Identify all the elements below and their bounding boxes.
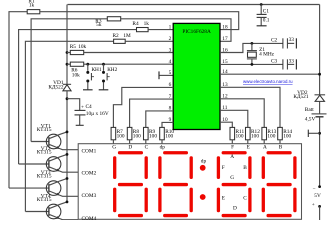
diode VD1 КД522 — [63, 83, 71, 86]
pushbutton КН1 — [86, 63, 89, 66]
wire R3 to pin 17 — [121, 19, 231, 41]
wire pin 15 to C3 — [220, 63, 283, 66]
terminal minus — [318, 185, 321, 188]
svg-text:G: G — [112, 144, 116, 150]
resistor R11 100 — [230, 127, 235, 139]
svg-text:5: 5 — [169, 70, 172, 76]
svg-text:КТ315: КТ315 — [37, 174, 52, 180]
resistor R2 1M — [114, 39, 126, 43]
svg-text:COM2: COM2 — [82, 171, 97, 177]
wire C4 bottom — [78, 115, 81, 125]
wire collector VT1 — [49, 132, 67, 139]
wire left bias rail — [65, 5, 68, 85]
capacitor C3 33 — [281, 59, 284, 69]
wire R6 to pin 4 — [84, 62, 173, 65]
ground pin 5 — [159, 74, 173, 77]
display digit 4 — [267, 151, 292, 154]
svg-text:E: E — [247, 144, 250, 150]
svg-text:R2: R2 — [113, 33, 120, 39]
svg-text:C2: C2 — [271, 37, 278, 43]
display module — [78, 144, 301, 220]
svg-text:5k: 5k — [96, 22, 102, 28]
battery Batt 4,5V — [312, 112, 327, 115]
svg-text:4 MHz: 4 MHz — [259, 52, 275, 58]
svg-text:G: G — [230, 175, 234, 181]
wire collector VT2 — [49, 154, 67, 161]
capacitor C4 10u 16V — [75, 109, 86, 112]
wire right rail upper — [318, 5, 321, 95]
display digit 3 — [222, 151, 247, 154]
wire R7 to display G — [112, 140, 115, 144]
svg-text:dp: dp — [201, 159, 207, 165]
wire R4 to pin 1 — [148, 28, 173, 31]
wire base VT1 — [31, 140, 49, 143]
wire emitter VT4 to COM4 — [49, 214, 78, 219]
wire R13 to display A — [262, 140, 265, 144]
resistor R6 10k — [70, 62, 83, 66]
svg-text:1M: 1M — [123, 33, 131, 39]
wire +rail top — [68, 3, 320, 6]
crystal Z1 4 MHz — [251, 42, 254, 45]
wire R1 net — [9, 12, 27, 188]
wire R11 to display F — [231, 140, 234, 144]
svg-text:COM1: COM1 — [82, 148, 97, 154]
svg-text:10k: 10k — [72, 72, 80, 78]
wire base VT3 — [9, 186, 49, 189]
wire base VT2 — [19, 162, 49, 165]
svg-text:4,5V: 4,5V — [305, 117, 316, 123]
svg-text:−: − — [312, 186, 315, 192]
svg-text:R4: R4 — [132, 21, 139, 27]
svg-text:100: 100 — [251, 134, 259, 140]
pushbutton КН2 — [102, 63, 105, 66]
svg-text:1k: 1k — [144, 21, 150, 27]
svg-text:КТ315: КТ315 — [37, 197, 52, 203]
svg-text:C1: C1 — [263, 9, 270, 15]
transistor VT2 КТ315 — [46, 157, 61, 172]
svg-text:D: D — [128, 144, 132, 150]
svg-text:КД521: КД521 — [293, 94, 309, 100]
wire pin 9 to R10 — [162, 122, 173, 127]
wire R10 to display dp — [160, 140, 163, 144]
svg-text:COM3: COM3 — [82, 193, 97, 199]
wire emitter VT1 to COM1 — [49, 144, 78, 149]
resistor R3 5k — [107, 17, 120, 21]
wire pin 13 to R14 — [220, 87, 280, 127]
svg-text:5V: 5V — [314, 193, 321, 199]
wire pin 14 VDD to rail — [220, 72, 320, 75]
svg-text:www.electroavto.narod.ru: www.electroavto.narod.ru — [243, 79, 293, 84]
ground КН1 — [86, 82, 89, 89]
wire from plus terminal — [318, 206, 321, 220]
svg-text:B: B — [279, 144, 283, 150]
wire pin 12 to R13 — [220, 99, 264, 128]
svg-text:E: E — [222, 195, 225, 201]
svg-text:100: 100 — [267, 134, 275, 140]
wire collector VT4 — [49, 202, 67, 209]
svg-text:100: 100 — [149, 134, 157, 140]
resistor R5 10k — [70, 50, 83, 54]
wire emitter VT3 to COM3 — [49, 191, 78, 196]
svg-text:R5: R5 — [70, 44, 77, 50]
wire right rail below battery — [318, 117, 321, 187]
wire base VT4 — [25, 210, 48, 213]
capacitor C1 0.1 — [260, 3, 263, 6]
svg-text:100: 100 — [236, 134, 244, 140]
svg-text:18: 18 — [222, 24, 228, 30]
wire pin 8 to R9 — [146, 111, 173, 128]
resistor R9 100 — [144, 127, 149, 139]
node R5 tap — [66, 51, 69, 54]
node C4 tap — [66, 97, 69, 100]
wire collector VT3 — [49, 179, 67, 186]
display colon dots — [200, 165, 206, 171]
wire R8 to display D — [128, 140, 131, 144]
resistor R12 100 — [246, 127, 251, 139]
svg-text:PIC16F628A: PIC16F628A — [182, 29, 211, 35]
svg-text:+: + — [312, 202, 315, 208]
svg-text:0.1: 0.1 — [263, 17, 270, 23]
capacitor C2 33 — [281, 38, 284, 48]
svg-text:КД522: КД522 — [48, 84, 64, 90]
wire R9 to display C — [144, 140, 147, 144]
wire R12 to display E — [246, 140, 249, 144]
resistor R4 1k — [137, 28, 149, 32]
IC U1 PIC16F628A — [173, 23, 220, 129]
wire emitter VT2 to COM2 — [49, 167, 78, 172]
diode VD2 — [315, 93, 326, 96]
svg-text:F: F — [231, 144, 234, 150]
wire R2 to pin 2 — [125, 40, 173, 43]
svg-text:B: B — [243, 165, 247, 171]
transistor VT4 КТ315 — [46, 204, 61, 219]
svg-text:A: A — [230, 154, 234, 160]
wire R4 net — [19, 30, 137, 164]
svg-text:+: + — [81, 105, 84, 111]
svg-text:100: 100 — [165, 134, 173, 140]
wire pin 7 to R8 — [130, 99, 174, 127]
wire pin 6 to R7 — [113, 87, 173, 127]
transistor VT3 КТ315 — [46, 181, 61, 196]
svg-text:F: F — [222, 165, 225, 171]
wire R5 to pin 3 — [84, 51, 173, 54]
svg-text:КТ315: КТ315 — [37, 149, 52, 155]
svg-text:Batt: Batt — [305, 107, 314, 113]
wire pin 11 to R12 — [220, 110, 248, 127]
svg-text:33: 33 — [289, 58, 295, 64]
node R6 tap — [66, 63, 69, 66]
resistor R14 100 — [278, 127, 283, 139]
wire pin 10 to R11 — [220, 122, 232, 127]
svg-text:17: 17 — [222, 36, 228, 42]
svg-text:100: 100 — [133, 134, 141, 140]
svg-text:C: C — [243, 195, 247, 201]
resistor R13 100 — [262, 127, 267, 139]
wire right rail mid — [318, 101, 321, 113]
svg-text:1: 1 — [169, 24, 172, 30]
wire R3 net — [31, 19, 107, 142]
svg-text:100: 100 — [117, 134, 125, 140]
svg-text:КН2: КН2 — [107, 67, 117, 73]
svg-text:C3: C3 — [271, 59, 278, 65]
svg-text:3: 3 — [169, 47, 172, 53]
svg-text:33: 33 — [289, 37, 295, 43]
svg-text:1k: 1k — [29, 3, 35, 9]
svg-text:10k: 10k — [78, 44, 86, 50]
svg-text:КТ315: КТ315 — [37, 127, 52, 133]
transistor VT1 КТ315 — [46, 134, 61, 149]
display digit 1 — [118, 151, 143, 154]
wire R14 to display B — [278, 140, 281, 144]
resistor R10 100 — [160, 127, 165, 139]
svg-text:100: 100 — [283, 134, 291, 140]
svg-text:КН1: КН1 — [92, 67, 102, 73]
node stub with terminal bar — [318, 132, 321, 135]
display digit 2 — [163, 151, 188, 154]
svg-text:C4: C4 — [86, 104, 93, 110]
svg-text:2: 2 — [169, 36, 172, 42]
svg-text:4: 4 — [169, 59, 172, 65]
wire R1 to pin 18 — [40, 12, 239, 30]
svg-text:dp: dp — [160, 144, 166, 150]
svg-text:COM4: COM4 — [82, 216, 97, 220]
resistor R8 100 — [127, 127, 132, 139]
wire VD1 to collector rail — [65, 91, 68, 203]
resistor R7 100 — [111, 127, 116, 139]
svg-text:A: A — [263, 144, 267, 150]
ground КН2 — [102, 82, 105, 89]
wire R2 net — [25, 41, 113, 211]
svg-text:C: C — [145, 144, 149, 150]
svg-text:D: D — [233, 206, 237, 212]
wire pin 16 to C2 — [220, 43, 283, 52]
svg-text:10µ x 16V: 10µ x 16V — [86, 111, 109, 117]
resistor R1 1k — [27, 10, 40, 14]
